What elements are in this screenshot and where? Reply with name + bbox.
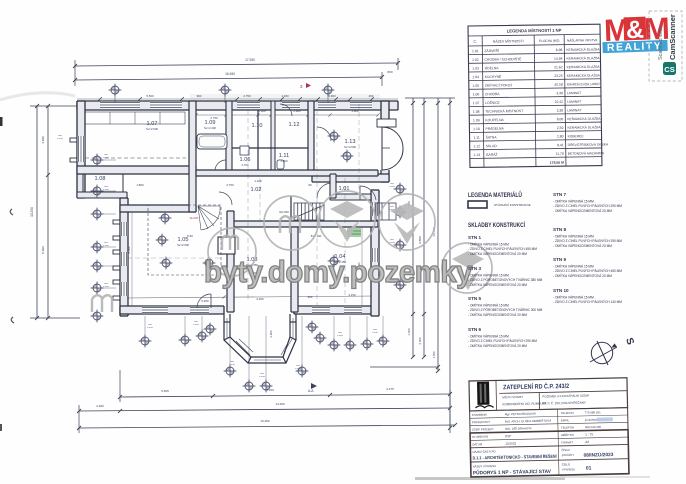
garage exterior landing	[377, 119, 396, 127]
svg-text:1.13: 1.13	[473, 153, 480, 157]
survey marker 15	[328, 255, 341, 268]
section mark A-A bottom	[308, 383, 317, 393]
entry porch steps right	[376, 203, 396, 220]
svg-text:800: 800	[104, 283, 109, 285]
svg-text:STAVEBNÍK: STAVEBNÍK	[472, 413, 487, 417]
svg-text:1.200: 1.200	[337, 335, 343, 337]
svg-text:2,80: 2,80	[557, 134, 564, 138]
bathtub in 1.09	[197, 134, 227, 149]
svg-text:1 : 75: 1 : 75	[585, 432, 593, 436]
svg-text:PLOCHA (M2): PLOCHA (M2)	[539, 39, 559, 43]
svg-text:1.200: 1.200	[389, 186, 395, 188]
svg-text:90: 90	[308, 183, 312, 187]
svg-text:2.200: 2.200	[256, 297, 264, 301]
svg-text:2.750: 2.750	[242, 163, 249, 167]
wc in 1.11	[277, 160, 284, 169]
svg-text:- OMÍTKA VÁPENNÁ 15 MM: - OMÍTKA VÁPENNÁ 15 MM	[468, 243, 509, 247]
svg-text:ZÁDVEŘÍ: ZÁDVEŘÍ	[484, 48, 499, 53]
svg-text:MÍSTO STAVBY: MÍSTO STAVBY	[502, 395, 523, 399]
svg-text:DATUM: DATUM	[472, 442, 482, 446]
straight stair flight	[294, 203, 324, 220]
svg-text:SLOUP: SLOUP	[190, 216, 199, 220]
svg-text:NÁZEV MÍSTNOSTI: NÁZEV MÍSTNOSTI	[493, 39, 524, 43]
svg-text:01: 01	[586, 465, 592, 471]
door arc corridor to 1.05	[219, 192, 232, 205]
svg-text:CamScanner: CamScanner	[668, 14, 677, 60]
bay window	[224, 314, 296, 363]
survey marker 25	[314, 332, 327, 345]
svg-text:608 029 390: 608 029 390	[585, 425, 602, 429]
svg-text:Sv=2.600: Sv=2.600	[344, 145, 356, 149]
CamScanner dashed frame	[649, 11, 682, 81]
svg-text:1.12: 1.12	[289, 122, 300, 128]
survey marker 32	[394, 239, 407, 252]
scan shadow bottom of title block	[415, 477, 565, 480]
STN block STN 7	[553, 192, 622, 213]
svg-text:byty.domy.pozemky: byty.domy.pozemky	[204, 254, 473, 289]
survey marker 3	[322, 84, 335, 97]
survey marker 5	[91, 185, 104, 198]
svg-text:KERAMICKÁ DLAŽBA: KERAMICKÁ DLAŽBA	[567, 64, 601, 69]
svg-text:1.10: 1.10	[473, 127, 480, 131]
scan shade top edge	[190, 94, 380, 99]
north arrow	[590, 341, 617, 365]
survey marker 34	[328, 130, 341, 143]
survey marker 20	[224, 365, 237, 378]
svg-text:1.460: 1.460	[407, 328, 411, 335]
partition 1.09/1.10a	[257, 110, 259, 170]
svg-text:9.800: 9.800	[418, 236, 422, 244]
survey marker 31	[394, 206, 407, 219]
svg-text:- ZDIVO Z CIHEL PLNÝCH PÁLENÝC: - ZDIVO Z CIHEL PLNÝCH PÁLENÝCH 140 MM	[553, 300, 622, 304]
svg-text:16.450: 16.450	[260, 419, 270, 423]
svg-text:MĚŘÍTKO: MĚŘÍTKO	[561, 432, 575, 437]
svg-text:NÁŠLAPNÁ VRSTVA: NÁŠLAPNÁ VRSTVA	[567, 37, 598, 42]
svg-text:KOMENSKÉHO 243, RUMBURK: KOMENSKÉHO 243, RUMBURK	[502, 400, 546, 406]
svg-text:OBÝVACÍ POKOJ: OBÝVACÍ POKOJ	[485, 83, 513, 87]
wall between 1.07 area and 1.09	[226, 101, 232, 174]
svg-text:5.625: 5.625	[161, 389, 169, 393]
svg-text:STN 1: STN 1	[468, 235, 481, 240]
svg-text:960: 960	[197, 94, 202, 98]
svg-text:- OMÍTKA VÁPENOCEMENTOVÁ 20 M: - OMÍTKA VÁPENOCEMENTOVÁ 20 MM	[468, 252, 527, 256]
dimension line right 4	[449, 98, 451, 428]
svg-text:4.150: 4.150	[348, 293, 356, 297]
svg-text:- OMÍTKA VÁPENOCEMENTOVÁ 20 M: - OMÍTKA VÁPENOCEMENTOVÁ 20 MM	[468, 344, 527, 348]
svg-text:ZAKÁZKY: ZAKÁZKY	[562, 453, 575, 457]
svg-text:1.09: 1.09	[473, 118, 480, 122]
survey marker 33	[394, 279, 407, 292]
dimension line left inner	[47, 106, 49, 318]
svg-text:NÁZEV ČÁSTI PD: NÁZEV ČÁSTI PD	[472, 448, 495, 453]
svg-text:5.300: 5.300	[201, 299, 209, 303]
svg-text:Č.: Č.	[473, 39, 477, 44]
svg-text:STN 10: STN 10	[553, 288, 569, 293]
svg-text:1.02: 1.02	[251, 187, 262, 193]
dimension line bottom 1	[120, 394, 450, 397]
svg-text:1.200: 1.200	[259, 376, 265, 378]
svg-text:- ZDIVO Z CIHEL PLNÝCH PÁLENÝC: - ZDIVO Z CIHEL PLNÝCH PÁLENÝCH 290 MM	[553, 239, 622, 243]
svg-text:1.06: 1.06	[473, 92, 480, 96]
survey marker 14	[203, 257, 216, 270]
svg-text:5.500: 5.500	[146, 94, 154, 98]
dim extension top right b	[381, 72, 383, 86]
chimney block in 1.05	[218, 237, 235, 254]
svg-text:NÁZEV VÝKRESU: NÁZEV VÝKRESU	[473, 464, 497, 468]
survey marker 27	[344, 339, 357, 352]
svg-text:800: 800	[387, 70, 392, 74]
svg-text:1.300: 1.300	[281, 94, 289, 98]
svg-text:STN 9: STN 9	[553, 257, 566, 262]
svg-text:1.200: 1.200	[103, 245, 109, 247]
svg-text:STN 7: STN 7	[553, 192, 566, 197]
svg-text:LAMINÁT: LAMINÁT	[567, 100, 581, 104]
svg-text:KERAMICKÁ DLAŽBA: KERAMICKÁ DLAŽBA	[567, 116, 601, 121]
survey marker 35	[341, 150, 354, 163]
svg-text:- ZDIVO Z CIHEL PLNÝCH PÁLENÝC: - ZDIVO Z CIHEL PLNÝCH PÁLENÝCH 450 MM	[468, 247, 537, 251]
svg-text:1.05: 1.05	[473, 84, 480, 88]
svg-text:- ZDIVO Z CIHEL PLNÝCH PÁLENÝC: - ZDIVO Z CIHEL PLNÝCH PÁLENÝCH 450 MM	[553, 269, 622, 273]
guide line h	[127, 257, 220, 259]
svg-text:- ZDIVO Z PÓROBETONOVÝCH TVÁRN: - ZDIVO Z PÓROBETONOVÝCH TVÁRNIC 380 MM	[468, 277, 543, 282]
survey marker 29	[377, 335, 390, 348]
dashed line room 1.07	[85, 157, 186, 159]
svg-text:STN 3: STN 3	[468, 266, 481, 271]
svg-text:1.200: 1.200	[295, 368, 301, 370]
svg-text:1.03: 1.03	[472, 66, 479, 70]
dim extension top right a	[397, 58, 399, 70]
wall right of room 1.07	[189, 101, 196, 212]
svg-text:800: 800	[373, 329, 378, 331]
svg-text:- OMÍTKA VÁPENNÁ 15 MM: - OMÍTKA VÁPENNÁ 15 MM	[468, 274, 509, 278]
dimension line top 16.450	[75, 77, 382, 80]
svg-text:1.200: 1.200	[57, 138, 63, 140]
svg-text:SKLADBY KONSTRUKCÍ: SKLADBY KONSTRUKCÍ	[468, 221, 525, 229]
dimension chain line top	[77, 98, 398, 100]
survey marker 28	[361, 338, 374, 351]
svg-text:PRÁDELNA: PRÁDELNA	[485, 127, 504, 131]
outer wall left lower (room 1.05)	[120, 198, 128, 316]
svg-text:4.990: 4.990	[41, 136, 45, 144]
outer wall right (garage wing)	[381, 101, 389, 182]
svg-text:DŘEVOTŘÍSKOVÁ DESKA: DŘEVOTŘÍSKOVÁ DESKA	[568, 141, 609, 147]
svg-text:- ZDIVO Z CIHEL PLNÝCH PÁLENÝC: - ZDIVO Z CIHEL PLNÝCH PÁLENÝCH 290 MM	[468, 339, 537, 343]
dim extension left top	[30, 105, 80, 107]
survey marker 10	[91, 310, 104, 323]
interior dim chain x=362 vertical	[361, 227, 363, 306]
svg-text:ST. P. Č. 299, DOLNÍ KŘEČANY: ST. P. Č. 299, DOLNÍ KŘEČANY	[542, 400, 586, 406]
svg-text:- OMÍTKA VÁPENNÁ 15 MM: - OMÍTKA VÁPENNÁ 15 MM	[553, 200, 594, 204]
svg-text:JÍDELNA: JÍDELNA	[485, 66, 500, 70]
survey marker 30	[394, 183, 407, 196]
marker leader lines top	[114, 96, 116, 103]
svg-text:3: 3	[300, 84, 303, 89]
survey marker 24	[306, 321, 319, 334]
dimension line right 2	[423, 98, 425, 357]
dimension line bottom 3	[79, 425, 455, 428]
M&M Reality logo	[601, 11, 668, 54]
survey marker 22	[260, 380, 273, 393]
scan mark left edge 1	[10, 209, 13, 215]
cupboard row in 1.07	[85, 112, 185, 124]
svg-text:21,62: 21,62	[554, 65, 563, 69]
svg-text:- OMÍTKA VÁPENOCEMENTOVÁ 20 M: - OMÍTKA VÁPENOCEMENTOVÁ 20 MM	[553, 209, 612, 213]
svg-text:STN 6: STN 6	[468, 327, 481, 332]
svg-text:1.050: 1.050	[432, 351, 436, 358]
svg-text:KERAMICKÁ DLAŽBA: KERAMICKÁ DLAŽBA	[567, 124, 601, 129]
svg-text:800: 800	[148, 324, 153, 326]
survey marker 13	[160, 257, 173, 270]
door arc 1.12	[280, 104, 292, 116]
svg-text:800: 800	[194, 321, 199, 323]
wall between 1.10 and 1.12	[271, 101, 275, 174]
svg-text:ČÍSLO: ČÍSLO	[562, 461, 571, 466]
svg-text:STN 5: STN 5	[468, 296, 481, 301]
svg-text:TELEFON: TELEFON	[561, 425, 574, 429]
svg-text:- ZDIVO Z CIHEL PLNÝCH PÁLENÝC: - ZDIVO Z CIHEL PLNÝCH PÁLENÝCH 290 MM	[553, 204, 622, 208]
svg-text:800: 800	[58, 135, 63, 137]
svg-text:1.02: 1.02	[472, 58, 479, 62]
wall left of 1.01	[330, 174, 336, 198]
dim ext bottom a	[119, 370, 121, 402]
svg-text:3.900: 3.900	[328, 94, 336, 98]
dim ext bottom right	[449, 390, 451, 433]
svg-text:1.10: 1.10	[252, 123, 263, 129]
svg-text:2.300: 2.300	[418, 337, 422, 344]
legend table	[468, 24, 609, 167]
survey marker 21	[243, 380, 256, 393]
survey marker 2	[219, 84, 232, 97]
survey marker 11	[159, 212, 172, 225]
svg-text:2,50: 2,50	[557, 126, 564, 130]
svg-text:1.200: 1.200	[372, 332, 378, 334]
door arc 1.09	[215, 160, 226, 170]
svg-text:800: 800	[338, 332, 343, 334]
svg-text:1.800: 1.800	[136, 183, 144, 187]
STN block STN 3	[468, 266, 543, 287]
svg-text:- OMÍTKA VÁPENNÁ 15 MM: - OMÍTKA VÁPENNÁ 15 MM	[468, 335, 509, 339]
svg-text:ČÍSLO: ČÍSLO	[561, 447, 570, 452]
svg-text:10.290: 10.290	[30, 207, 34, 217]
bay window glazing lines	[227, 318, 293, 360]
svg-text:8,41: 8,41	[557, 143, 564, 147]
marker leader lines bottom	[144, 316, 146, 335]
marker leader lines left	[103, 159, 116, 161]
room 1.08 enclosure	[83, 174, 123, 192]
svg-text:ZODP. PROJEKT: ZODP. PROJEKT	[472, 427, 494, 431]
fan stair in 1.05	[198, 206, 220, 230]
survey marker 17	[179, 334, 192, 347]
svg-text:KERAMICKÁ DLAŽBA, LAMINÁT: KERAMICKÁ DLAŽBA, LAMINÁT	[567, 81, 600, 86]
svg-text:260: 260	[369, 94, 374, 98]
survey marker 19	[204, 323, 217, 336]
svg-text:TECHNICKÁ MÍSTNOST: TECHNICKÁ MÍSTNOST	[485, 109, 523, 114]
svg-text:STN 8: STN 8	[553, 227, 566, 232]
svg-text:1.04: 1.04	[472, 75, 479, 79]
svg-text:1.200: 1.200	[103, 189, 109, 191]
svg-text:1.200: 1.200	[193, 324, 199, 326]
window sills left wall 1.05	[113, 220, 120, 224]
svg-text:Mgr. PETRA REGNOVÁ: Mgr. PETRA REGNOVÁ	[505, 412, 536, 417]
svg-text:ING. JIŘÍ DRAHOTA: ING. JIŘÍ DRAHOTA	[505, 425, 532, 431]
survey marker 1	[109, 84, 122, 97]
svg-text:2.200: 2.200	[96, 404, 104, 408]
svg-text:22,42: 22,42	[555, 100, 564, 104]
svg-text:Sv=2.600: Sv=2.600	[146, 127, 158, 131]
outer wall right lower	[371, 190, 379, 316]
stair side wall	[290, 196, 292, 221]
svg-text:800: 800	[296, 365, 301, 367]
svg-text:KERAMICKÁ DLAŽBA: KERAMICKÁ DLAŽBA	[566, 55, 600, 60]
title block	[469, 378, 629, 477]
svg-text:1.01: 1.01	[472, 49, 479, 53]
svg-text:2.750: 2.750	[226, 183, 234, 187]
svg-text:800: 800	[104, 242, 109, 244]
survey marker 4	[91, 154, 104, 167]
svg-text:45,58: 45,58	[554, 83, 563, 87]
watermark small m letters	[92, 216, 300, 312]
svg-text:1.200: 1.200	[103, 157, 109, 159]
dashed ceiling outline room 1.05	[148, 205, 221, 275]
svg-text:GD 900: GD 900	[279, 210, 289, 214]
svg-text:KUCHYNĚ: KUCHYNĚ	[485, 74, 502, 79]
svg-text:Scanned with: Scanned with	[658, 27, 664, 60]
svg-text:TELEFON: TELEFON	[561, 411, 574, 415]
svg-text:- OMÍTKA VÁPENNÁ 15 MM: - OMÍTKA VÁPENNÁ 15 MM	[468, 304, 509, 308]
CS icon	[663, 62, 676, 75]
survey marker 6	[91, 208, 104, 221]
svg-text:3,38: 3,38	[557, 109, 564, 113]
entry door arc 1.01	[360, 186, 376, 200]
svg-text:1.12: 1.12	[473, 144, 480, 148]
svg-text:- OMÍTKA VÁPENOCEMENTOVÁ 20 M: - OMÍTKA VÁPENOCEMENTOVÁ 20 MM	[468, 283, 527, 287]
svg-text:LAMINÁT: LAMINÁT	[567, 91, 581, 95]
svg-text:- OMÍTKA VÁPENOCEMENTOVÁ 20 M: - OMÍTKA VÁPENOCEMENTOVÁ 20 MM	[553, 274, 612, 278]
STN block STN 5	[468, 296, 543, 317]
svg-text:- OMÍTKA VÁPENOCEMENTOVÁ 20 M: - OMÍTKA VÁPENOCEMENTOVÁ 20 MM	[468, 313, 527, 317]
dimension line bottom 2	[79, 408, 450, 411]
svg-text:STUPEŇ PD: STUPEŇ PD	[472, 434, 488, 439]
svg-text:Sv=2.400: Sv=2.400	[204, 126, 216, 130]
svg-text:KERAMICKÁ DLAŽBA: KERAMICKÁ DLAŽBA	[567, 72, 601, 77]
existing construction swatch	[468, 201, 487, 208]
STN block STN 10	[553, 288, 622, 304]
dim extension right top	[405, 97, 455, 99]
survey marker 8	[91, 260, 104, 273]
green new-structure patch	[347, 228, 361, 237]
svg-text:1.200: 1.200	[103, 286, 109, 288]
svg-text:- ZDIVO Z PÓROBETONOVÝCH TVÁRN: - ZDIVO Z PÓROBETONOVÝCH TVÁRNIC 300 MM	[468, 307, 543, 312]
dimension line left outer	[36, 106, 38, 318]
survey marker 26	[328, 339, 341, 352]
svg-text:CS: CS	[664, 65, 674, 74]
svg-text:BETONOVÁ MAZANINA: BETONOVÁ MAZANINA	[568, 151, 605, 156]
STN block STN 8	[553, 227, 622, 248]
outer wall bottom left segment	[120, 306, 224, 314]
svg-text:ŠATNA: ŠATNA	[486, 134, 498, 139]
svg-text:LAMINÁT: LAMINÁT	[567, 108, 581, 112]
wall between 1.03 and 1.04	[291, 227, 298, 312]
svg-text:STÁVAJÍCÍ KONSTRUKCE: STÁVAJÍCÍ KONSTRUKCE	[494, 203, 531, 207]
door arc bottom wall 1.03	[197, 294, 211, 308]
dim extension left bottom	[30, 317, 80, 319]
STN block STN 1	[468, 235, 537, 256]
svg-text:CHODBA: CHODBA	[485, 92, 500, 96]
svg-text:FORMÁT: FORMÁT	[561, 440, 573, 444]
svg-text:800: 800	[104, 154, 109, 156]
dim connector right y367	[370, 366, 438, 368]
svg-text:LEGENDA MATERIÁLŮ: LEGENDA MATERIÁLŮ	[468, 191, 522, 199]
scan crease top-left	[0, 93, 75, 100]
svg-text:A-A: A-A	[308, 389, 314, 393]
svg-text:- OMÍTKA VÁPENNÁ 15 MM: - OMÍTKA VÁPENNÁ 15 MM	[553, 265, 594, 269]
interior guide lines	[247, 110, 249, 300]
svg-text:178,56 M: 178,56 M	[550, 161, 564, 165]
svg-text:800: 800	[260, 373, 265, 375]
svg-text:2.750: 2.750	[243, 94, 251, 98]
svg-text:16.450: 16.450	[225, 72, 235, 76]
svg-text:EMAIL: EMAIL	[561, 418, 570, 422]
watermark diamonds	[330, 201, 484, 290]
svg-text:1.08: 1.08	[95, 176, 106, 182]
wall bottom of room 1.07	[77, 166, 196, 174]
svg-text:LOŽNICE: LOŽNICE	[485, 100, 501, 105]
svg-text:23,25: 23,25	[554, 74, 563, 78]
door arc 1.01 to corridor	[317, 183, 332, 198]
window sill left wall 1.07	[70, 138, 77, 142]
interior dim chain y=296	[124, 296, 375, 298]
door arc garage to 1.12	[317, 127, 331, 141]
dimension line right 1	[412, 98, 414, 357]
svg-text:GARÁŽ: GARÁŽ	[486, 152, 498, 157]
wall between 1.05 and 1.03	[227, 211, 234, 312]
svg-text:1.08: 1.08	[473, 110, 480, 114]
dimension chain ticks top	[98, 97, 102, 101]
svg-text:LEGENDA MÍSTNOSTÍ 1 NP: LEGENDA MÍSTNOSTÍ 1 NP	[507, 28, 562, 34]
email highlight	[597, 417, 613, 421]
outer wall left upper (room 1.07)	[77, 101, 85, 198]
wall bottom of garage wing	[312, 174, 389, 182]
svg-text:900: 900	[308, 295, 313, 299]
wall top of room 1.05	[120, 205, 196, 212]
dimension line right 3	[437, 98, 439, 371]
dim ext bottom left	[78, 405, 80, 433]
svg-text:1.11: 1.11	[473, 136, 480, 140]
wall between 1.12 and 1.13	[308, 101, 314, 174]
survey marker 9	[91, 282, 104, 295]
partition 1.06 top	[232, 147, 308, 149]
svg-text:12/2023: 12/2023	[505, 442, 516, 446]
svg-text:REALITY: REALITY	[607, 40, 663, 54]
svg-text:SKLAD: SKLAD	[486, 144, 498, 148]
svg-text:Sv=2.900: Sv=2.900	[177, 243, 189, 247]
svg-text:800: 800	[104, 186, 109, 188]
svg-text:14.250: 14.250	[275, 402, 285, 406]
svg-text:8,98: 8,98	[556, 48, 563, 52]
wall bottom of 1.08	[77, 192, 127, 198]
wall 1.01 bottom	[330, 194, 371, 200]
survey marker 18	[196, 330, 209, 343]
svg-text:11,70: 11,70	[556, 152, 564, 156]
svg-text:1.200: 1.200	[147, 327, 153, 329]
svg-text:S: S	[623, 337, 636, 347]
survey marker 7	[91, 241, 104, 254]
svg-text:3,30: 3,30	[556, 91, 563, 95]
interior dim chain y=115	[196, 114, 378, 116]
outer wall bottom right segment	[294, 306, 378, 314]
garage door opening with swing doors	[380, 127, 403, 170]
svg-text:775 988 291: 775 988 291	[585, 410, 602, 414]
